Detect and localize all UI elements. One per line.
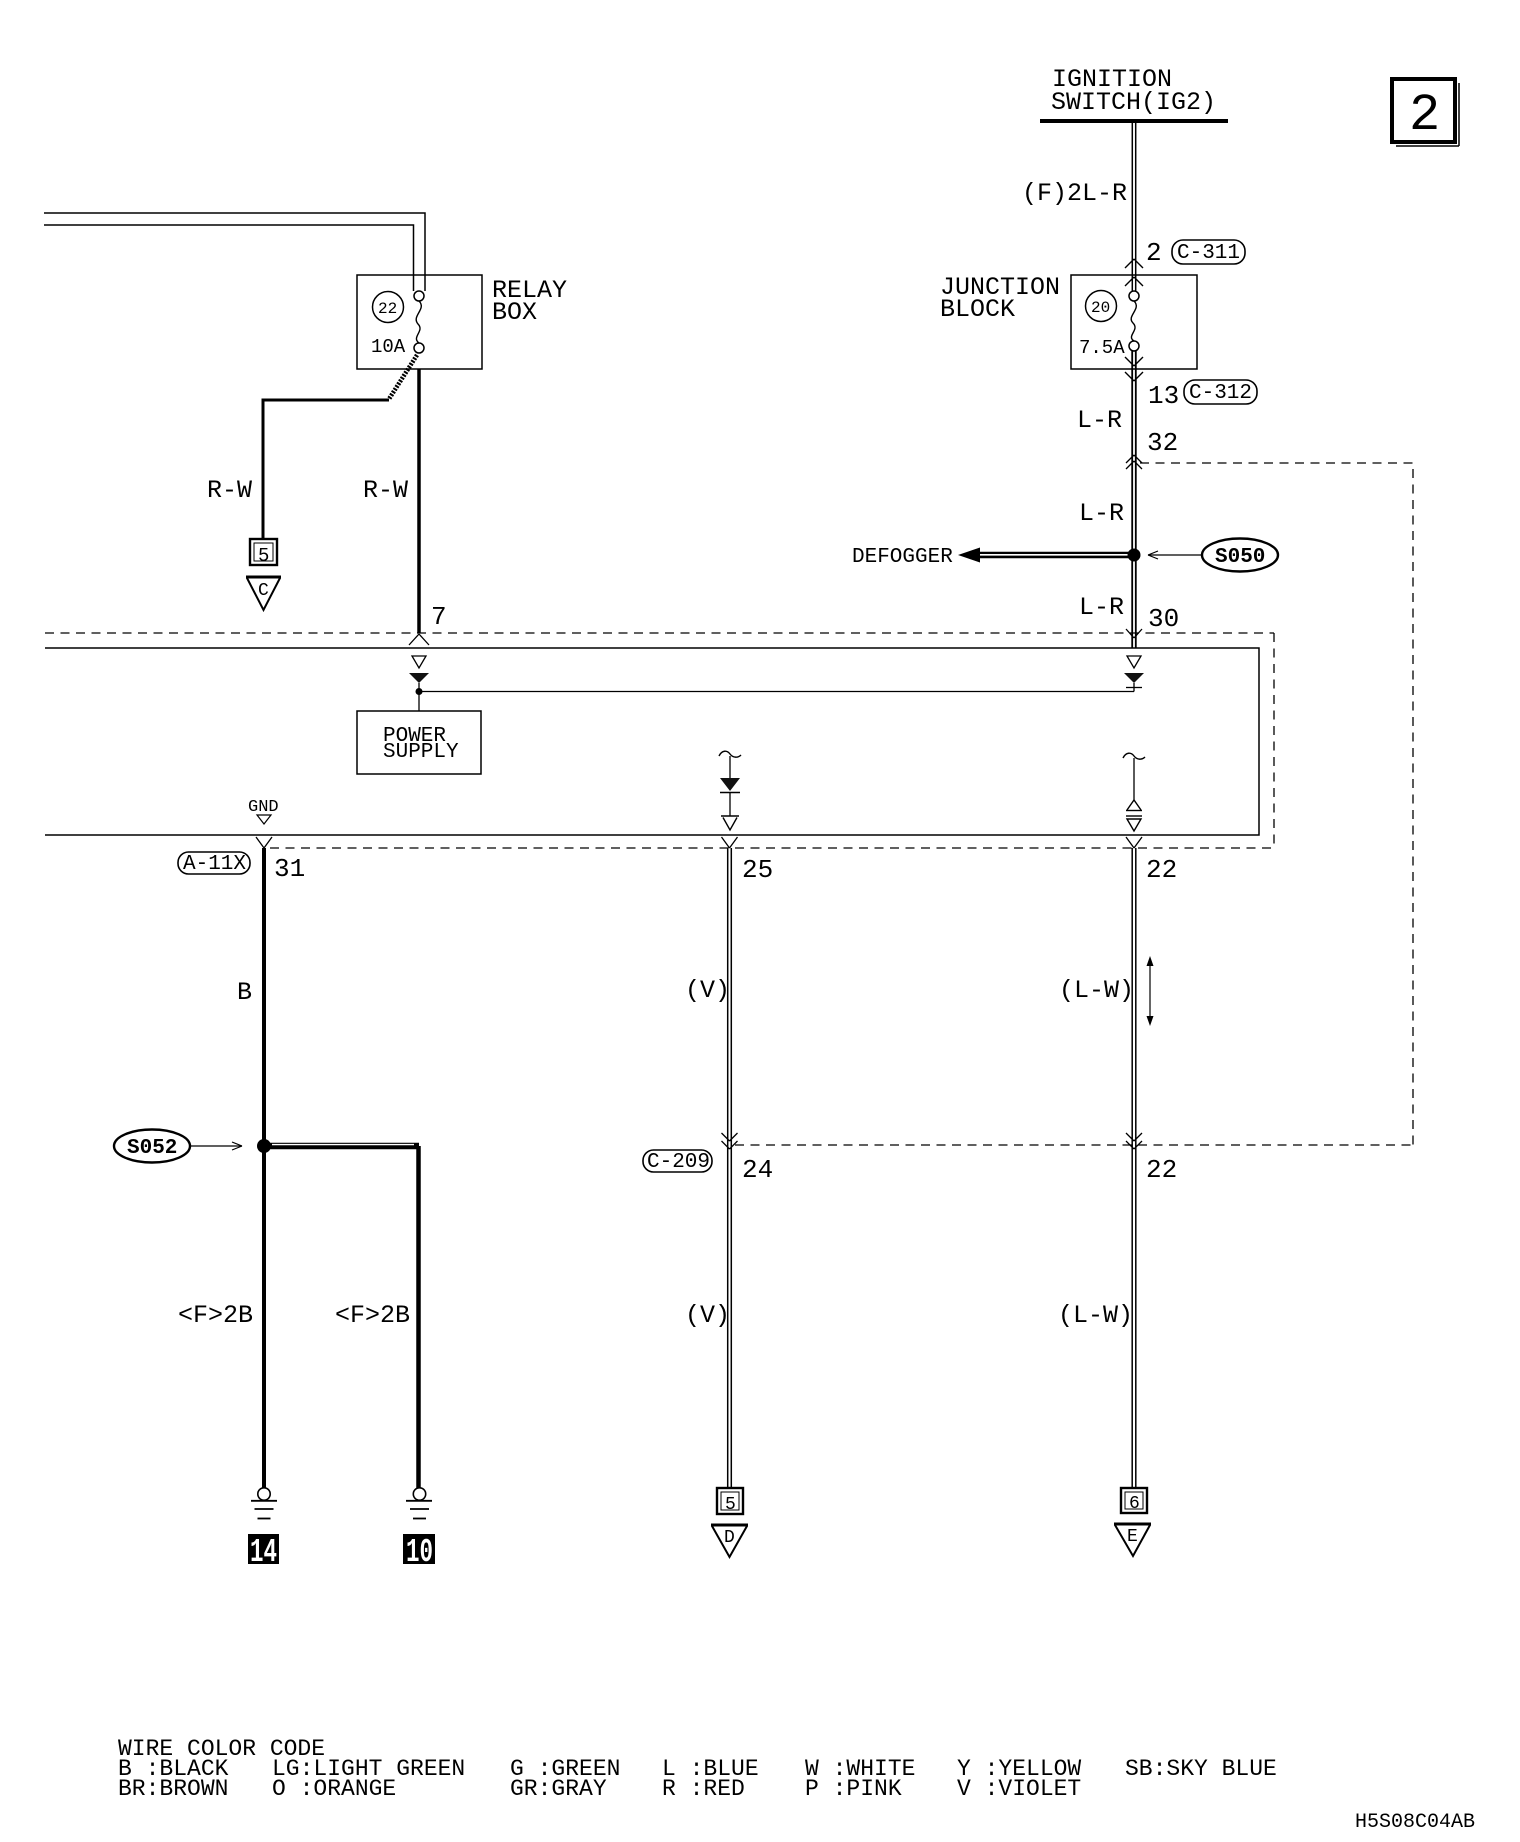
horizontal dashed line of rear circuit at pins 24/22 — [735, 1144, 1413, 1146]
wire (L-W) vertical (double line) — [1058, 848, 1136, 1487]
wire R-W left branch to terminal 5 — [207, 400, 389, 538]
svg-text:BR:BROWN: BR:BROWN — [118, 1776, 228, 1802]
wire R-W to pin 7 — [363, 369, 447, 645]
internal output symbol above pin 25 (coil, hatched triangle, bar, open triangle) — [719, 751, 741, 830]
svg-text:BOX: BOX — [492, 298, 537, 327]
svg-text:B: B — [237, 978, 252, 1007]
svg-text:V :VIOLET: V :VIOLET — [957, 1776, 1081, 1802]
svg-text:32: 32 — [1147, 428, 1178, 458]
svg-text:6: 6 — [1129, 1494, 1140, 1514]
dashed boundary of rear circuit (top, right, bottom) — [45, 632, 1274, 634]
svg-text:22: 22 — [1146, 855, 1177, 885]
connector C-209 pin 24 with double chevron — [643, 1133, 773, 1185]
svg-text:H5S08C04AB: H5S08C04AB — [1355, 1811, 1475, 1834]
connector chevron inside junction block top — [1125, 277, 1143, 286]
svg-text:20: 20 — [1091, 299, 1110, 317]
svg-text:L-R: L-R — [1077, 406, 1122, 435]
svg-text:(V): (V) — [685, 1301, 730, 1330]
svg-text:7.5A: 7.5A — [1079, 337, 1125, 359]
terminal 5 (left) — [250, 539, 277, 567]
power supply block — [357, 711, 481, 774]
svg-text:(L-W): (L-W) — [1058, 1301, 1133, 1330]
svg-text:GR:GRAY: GR:GRAY — [510, 1776, 607, 1802]
svg-text:L-R: L-R — [1079, 593, 1124, 622]
svg-text:(F)2L-R: (F)2L-R — [1022, 179, 1127, 208]
junction block box — [940, 273, 1197, 369]
svg-text:2: 2 — [1409, 86, 1440, 145]
power supply unit outline (solid box, open left) — [45, 648, 1259, 835]
terminal 5 (bottom) — [717, 1488, 743, 1515]
svg-text:C: C — [258, 581, 269, 601]
wire color code legend — [118, 1736, 1277, 1802]
dashed branch line from pin 32 to rear circuit — [1140, 463, 1413, 1145]
up-down arrow beside wire (L-W) — [1147, 956, 1154, 1026]
svg-text:C-311: C-311 — [1177, 242, 1240, 265]
svg-text:C-209: C-209 — [647, 1151, 710, 1174]
svg-text:SUPPLY: SUPPLY — [383, 741, 459, 764]
ground connector triangle C — [246, 577, 281, 610]
pin 32 with double chevron junction — [1126, 428, 1178, 469]
pin 30 with connector mark — [1126, 604, 1179, 638]
svg-text:S052: S052 — [127, 1137, 177, 1160]
fuse 22 (10A) in relay box — [371, 291, 424, 358]
svg-text:5: 5 — [725, 1495, 736, 1515]
page number box 2 — [1392, 79, 1459, 146]
svg-text:13: 13 — [1148, 381, 1179, 411]
connector triangle E — [1114, 1524, 1151, 1556]
svg-text:GND: GND — [248, 798, 279, 817]
svg-text:31: 31 — [274, 854, 305, 884]
svg-text:<F>2B: <F>2B — [178, 1301, 253, 1330]
pin 22 double chevron at dashed crossing (bottom) — [1126, 1133, 1177, 1185]
svg-text:DEFOGGER: DEFOGGER — [852, 546, 953, 569]
ground 14 — [248, 1488, 279, 1571]
svg-text:P :PINK: P :PINK — [805, 1776, 902, 1802]
svg-text:A-11X: A-11X — [183, 853, 246, 876]
splice S050 — [1148, 539, 1278, 572]
svg-text:(L-W): (L-W) — [1059, 976, 1134, 1005]
ignition switch (IG2) power source — [1040, 65, 1228, 121]
svg-text:10A: 10A — [371, 336, 406, 358]
hatched fuse output link — [389, 355, 417, 399]
svg-text:22: 22 — [1146, 1155, 1177, 1185]
connector pair at pin 30 entry — [1124, 656, 1144, 683]
relay box — [357, 275, 567, 369]
ground 10 — [403, 1488, 435, 1571]
svg-text:D: D — [724, 1528, 735, 1548]
svg-text:O :ORANGE: O :ORANGE — [272, 1776, 396, 1802]
connector C-312 — [1184, 380, 1257, 405]
wire from page edge into relay box (upper) — [44, 213, 425, 291]
svg-text:SB:SKY BLUE: SB:SKY BLUE — [1125, 1756, 1277, 1782]
svg-text:R-W: R-W — [363, 476, 408, 505]
connector chevron above junction block (C-311) — [1125, 259, 1143, 268]
svg-text:2: 2 — [1146, 238, 1162, 268]
svg-text:10: 10 — [406, 1534, 433, 1571]
svg-text:25: 25 — [742, 855, 773, 885]
internal output symbol above pin 22 (coil, up triangle, bar, down triangle) — [1123, 753, 1145, 831]
connector pair at pin 7 entry — [409, 656, 429, 683]
svg-text:SWITCH(IG2): SWITCH(IG2) — [1051, 88, 1216, 117]
GND terminal label — [248, 798, 279, 824]
connector chevron inside junction block bottom — [1125, 357, 1143, 366]
pin 22 exit mark (top) — [1126, 837, 1177, 885]
splice S052 — [114, 1130, 271, 1163]
svg-text:L-R: L-R — [1079, 499, 1124, 528]
terminal 6 — [1121, 1488, 1147, 1514]
svg-text:<F>2B: <F>2B — [335, 1301, 410, 1330]
connector triangle D — [711, 1525, 748, 1557]
svg-text:24: 24 — [742, 1155, 773, 1185]
svg-text:22: 22 — [378, 300, 397, 318]
internal supply bus wire with junction dot — [416, 683, 1143, 711]
wire (V) vertical (double line) — [685, 848, 731, 1487]
svg-text:BLOCK: BLOCK — [940, 295, 1015, 324]
wire from page edge into relay box (lower) — [44, 225, 414, 291]
svg-text:C-312: C-312 — [1189, 382, 1252, 405]
wire (F)2L-R from ignition switch (double line) — [1022, 123, 1136, 291]
svg-text:(V): (V) — [685, 976, 730, 1005]
svg-text:E: E — [1127, 1527, 1138, 1547]
svg-text:7: 7 — [431, 602, 447, 632]
svg-text:R :RED: R :RED — [662, 1776, 745, 1802]
connector chevron below junction block (C-312) — [1125, 372, 1143, 381]
svg-text:14: 14 — [250, 1534, 277, 1571]
svg-text:30: 30 — [1148, 604, 1179, 634]
pin 25 exit mark — [722, 837, 774, 885]
svg-text:S050: S050 — [1215, 546, 1265, 569]
svg-text:5: 5 — [258, 545, 269, 567]
svg-text:R-W: R-W — [207, 476, 252, 505]
wire B (ground wire) — [237, 848, 264, 1488]
wire L-R vertical (double line from fuse to power supply box) — [1077, 351, 1136, 648]
connector C-311 — [1172, 240, 1245, 265]
fuse 20 (7.5A) in junction block — [1079, 291, 1139, 360]
pin 31 exit mark and connector A-11X — [178, 837, 305, 884]
defogger feed arrow — [852, 546, 1141, 569]
branch wire from splice S052 to ground 10 — [264, 1145, 419, 1488]
